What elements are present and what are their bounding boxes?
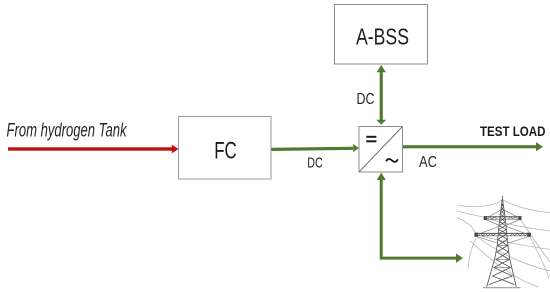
green double arrow: converter to A-BSS, DC	[376, 65, 386, 125]
box A-BSS	[335, 5, 428, 65]
converter DC symbol =	[366, 136, 376, 138]
svg-text:TEST LOAD: TEST LOAD	[480, 124, 546, 139]
grid pylon clipart	[457, 196, 550, 288]
pylon mast	[487, 196, 516, 287]
mast left edge	[487, 200, 502, 287]
box FC	[179, 117, 272, 180]
svg-text:DC: DC	[307, 154, 322, 171]
converter U1 box (DC/AC inverter)	[359, 127, 403, 173]
svg-text:AC: AC	[419, 154, 437, 171]
svg-text:FC: FC	[214, 138, 237, 165]
green arrow: converter to test load, AC	[403, 142, 543, 151]
mast tip	[501, 196, 503, 200]
mast right edge	[503, 200, 517, 287]
converter AC symbol ~	[386, 159, 398, 162]
pylon upper crossarm	[484, 210, 522, 226]
red arrow: hydrogen feed into FC	[8, 145, 179, 154]
pylon lower crossarm	[474, 227, 530, 243]
mast lattice lower	[493, 234, 515, 285]
mast lattice upper	[499, 204, 507, 234]
converter diagonal	[359, 127, 402, 172]
green arrow: FC to converter, DC	[271, 144, 359, 152]
svg-text:DC: DC	[357, 91, 375, 108]
green elbow arrow: grid link (up into converter, right to pylon)	[377, 173, 463, 263]
pylon ground line	[484, 287, 520, 289]
svg-text:A-BSS: A-BSS	[356, 24, 409, 50]
pylon wires	[457, 200, 550, 287]
svg-text:From hydrogen Tank: From hydrogen Tank	[7, 121, 128, 142]
